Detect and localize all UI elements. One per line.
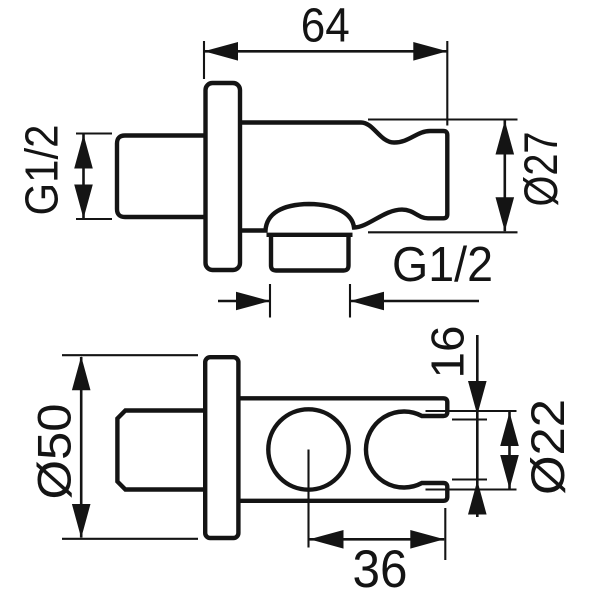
- svg-text:36: 36: [353, 540, 408, 599]
- dim 64: dimension line: [204, 50, 447, 53]
- svg-text:G1/2: G1/2: [392, 238, 493, 292]
- dim 16: dimension line: [476, 335, 479, 517]
- valve body square (bottom view): [117, 411, 203, 490]
- pipe G1/2 (side view, left stub): [117, 136, 204, 218]
- dim 36: right extension line: [444, 508, 446, 560]
- dim Ø50: arrowheads: [72, 356, 91, 538]
- dim Ø50: dimension line: [80, 357, 83, 538]
- svg-text:Ø27: Ø27: [514, 132, 567, 207]
- dim G1/2 left: arrowheads: [74, 135, 93, 219]
- wall plate (side view): [206, 83, 241, 270]
- svg-text:16: 16: [422, 326, 474, 379]
- outlet nozzle G1/2: [271, 235, 349, 271]
- svg-text:Ø22: Ø22: [521, 399, 574, 495]
- dim Ø27: extension lines: [368, 120, 518, 233]
- extension lines right side (Ø22 / 16): [426, 411, 517, 490]
- dim Ø27: dimension line: [503, 121, 506, 232]
- svg-text:64: 64: [301, 0, 350, 53]
- leader from circle centre: [307, 450, 309, 548]
- outlet flange line: [267, 233, 353, 237]
- dim Ø22: dimension line: [508, 412, 511, 489]
- dim G1/2 bottom: dimension lines: [218, 300, 479, 303]
- dim 36: dimension line: [310, 538, 445, 541]
- svg-text:Ø50: Ø50: [28, 404, 81, 500]
- dim G1/2 left: dimension line: [82, 135, 85, 219]
- dim G1/2 bottom: extension lines: [270, 284, 350, 318]
- dim Ø50: extension lines: [62, 355, 198, 539]
- dim Ø27: arrowheads: [496, 121, 515, 232]
- wall plate (bottom view): [205, 357, 238, 538]
- dim 36: arrowheads: [310, 530, 445, 549]
- knob circle (bottom view): [268, 409, 348, 489]
- svg-text:G1/2: G1/2: [16, 125, 68, 216]
- dim Ø22: arrowheads: [500, 412, 519, 489]
- dim G1/2 left: extension lines: [76, 134, 112, 220]
- dim G1/2 bottom: arrowheads: [236, 292, 384, 311]
- holder body with fork slot (bottom view): [238, 398, 447, 501]
- holder body outline (side view): [240, 123, 447, 231]
- dim 64: extension lines: [204, 41, 447, 126]
- dim 64: arrowheads: [204, 42, 447, 61]
- dim 16: arrowheads: [468, 381, 487, 515]
